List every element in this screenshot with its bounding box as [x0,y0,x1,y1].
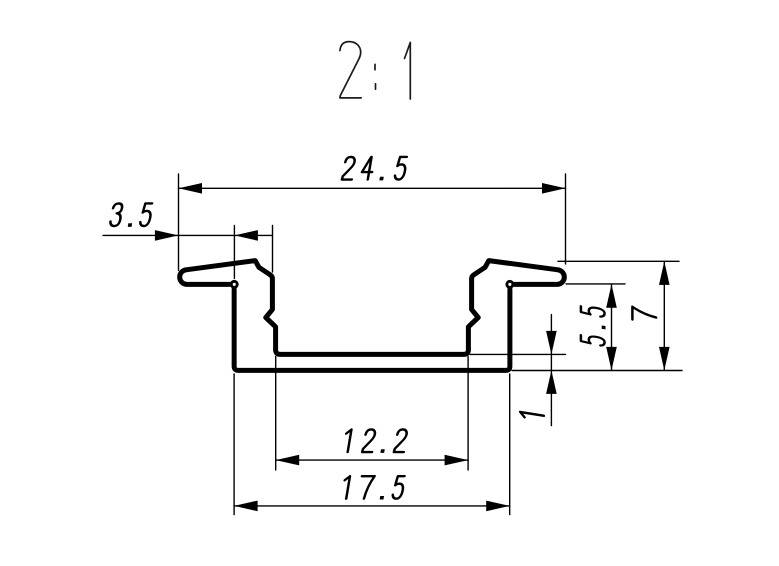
text 1 rotated [520,412,544,420]
ext line right tip x=565.5 [565,174,567,264]
text 12.2 [343,429,407,452]
dim line 3.5 with tails [103,234,273,236]
thin lines [103,174,682,515]
profile outline [180,261,565,371]
5.5 top arrow [606,284,617,308]
17.5 right arrow [486,501,510,512]
ext line left tip x=178.5 [178,174,180,271]
3.5 right arrow [234,230,258,241]
arrowheads [155,183,670,511]
text 5.5 rotated [581,306,605,346]
ext line 12.2 left x=275.7 [275,357,277,471]
7 top arrow [659,261,670,285]
text 24.5 [342,157,407,180]
right rolled ball end [507,281,513,287]
ext line x=272.5 for 3.5 [272,226,274,273]
ext line x=234.4 for 3.5 [233,226,235,279]
dim line 5.5 [611,284,613,370]
ext line y=261.3 for 7 [558,260,679,262]
dim line 1 [550,315,552,426]
12.2 left arrow [276,455,300,466]
text 7 rotated [632,307,656,323]
24.5 left arrow [179,183,203,194]
ext line y=283.9 for 5.5 [566,283,625,285]
1 upper arrow pointing down [546,331,557,355]
3.5 left arrow [155,230,179,241]
ext line 12.2 right x=468.1 [467,357,469,471]
dim line 12.2 [276,459,468,461]
title scale text 2:1 [340,42,410,99]
dim line 7 [663,261,665,370]
left rolled ball end [231,281,237,287]
5.5 bottom arrow [606,347,617,371]
17.5 left arrow [234,501,258,512]
ext line floor y=354.4 [470,353,566,355]
1 lower arrow pointing up [546,370,557,394]
ext line 17.5 right x=509.7 [509,374,511,515]
ext line outer bottom y=370.5 [512,370,682,372]
dimension texts [110,157,656,499]
dim line 24.5 [179,187,566,189]
text 17.5 [342,476,405,499]
dim line 17.5 [234,505,510,507]
ext line 17.5 left x=234.1 [233,374,235,515]
text 3.5 [110,203,153,226]
24.5 right arrow [542,183,566,194]
12.2 right arrow [445,455,469,466]
7 bottom arrow [659,347,670,371]
